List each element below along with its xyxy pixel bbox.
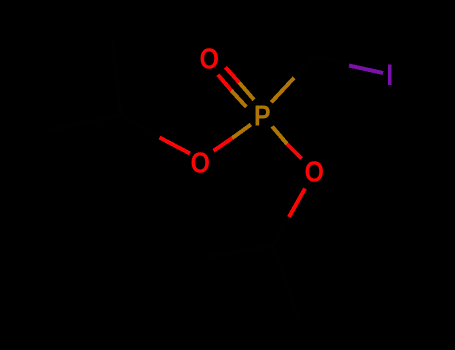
svg-text:P: P (254, 100, 271, 132)
atom I (iodine, purple letter I drawn as bar) (388, 65, 392, 86)
bond O2-CH left methine (red half then dark carbon half) (121, 115, 190, 154)
bond CH2-I (dark carbon half then purple iodine half) (316, 56, 383, 73)
atom O3 (right ester oxygen, red letter O) (304, 156, 324, 188)
svg-text:O: O (304, 156, 324, 188)
bond O3-CH right methine (red half then dark carbon half) (273, 189, 305, 247)
bond P-O2 (left ester bond; gold half then red half) (214, 125, 251, 151)
svg-text:O: O (190, 147, 210, 179)
P=O1 double bond, line 1 (lower-left line; red half then gold half) (218, 75, 246, 107)
bond left CH-CH3 a (dark carbon bond) (46, 115, 121, 131)
atom P (phosphorus, gold letter P) (254, 100, 271, 132)
bond left CH-CH3 b (dark carbon bond) (112, 38, 121, 115)
atom O2 (left ester oxygen, red letter O) (190, 147, 210, 179)
svg-text:O: O (199, 43, 219, 75)
bond P-CH2 (to iodomethyl carbon; gold half then dark carbon half) (271, 56, 316, 102)
bond right CH-CH3 a (dark carbon bond) (205, 246, 273, 257)
atom O1 (phosphoryl oxygen, red letter O) (199, 43, 219, 75)
bond right CH-CH3 b (dark carbon bond) (273, 246, 299, 320)
bond P-O3 (right ester bond; gold half then red half) (272, 126, 301, 158)
P=O1 double bond, line 2 (upper-right line; red half then gold half) (225, 67, 254, 100)
